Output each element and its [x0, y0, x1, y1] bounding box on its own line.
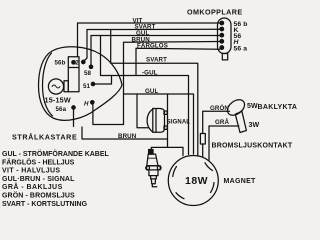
horn terminal top — [164, 111, 167, 114]
wire BRUN — [124, 42, 220, 125]
wire GRA — [209, 126, 239, 160]
node 51 — [91, 82, 94, 85]
bulb 15-15W — [48, 79, 63, 94]
svg-text:51: 51 — [83, 83, 91, 90]
spark plug hex — [147, 166, 161, 170]
spark plug insulator — [147, 154, 158, 166]
wire horn low — [137, 94, 148, 128]
svg-text:3W: 3W — [249, 122, 260, 129]
svg-text:GUL·BRUN - SIGNAL: GUL·BRUN - SIGNAL — [2, 176, 75, 183]
wire brun bottom — [82, 127, 168, 139]
wire GUL mid — [101, 36, 189, 155]
svg-text:56a: 56a — [56, 106, 67, 113]
pin K switch — [220, 27, 224, 31]
wire GUL — [91, 36, 220, 66]
spark plug body — [149, 170, 158, 176]
wire GUL low — [124, 94, 194, 154]
svg-text:FÄRGLÖS: FÄRGLÖS — [137, 43, 168, 50]
pin 56a switch — [220, 46, 224, 50]
pin H switch — [220, 40, 224, 44]
wire GRON — [203, 111, 230, 156]
magneto inner arcs — [173, 167, 177, 177]
svg-text:FÄRGLÖS - HELLJUS: FÄRGLÖS - HELLJUS — [2, 157, 75, 166]
svg-text:GRÖN: GRÖN — [210, 105, 229, 112]
horn terminal bottom — [164, 126, 167, 129]
svg-text:GRÖN - BROMSLJUS: GRÖN - BROMSLJUS — [2, 191, 75, 200]
switch tab — [222, 54, 227, 60]
headlight lens inner line — [43, 53, 53, 116]
node H — [91, 101, 94, 104]
wire SVART — [84, 29, 220, 61]
node 56b — [72, 61, 75, 64]
horn SIGNAL plate — [153, 109, 156, 133]
tail light neck — [236, 110, 242, 113]
svg-text:15-15W: 15-15W — [45, 96, 71, 105]
terminal box 2 — [68, 57, 79, 68]
wire horn feed — [167, 94, 169, 147]
headlight shell — [39, 47, 123, 121]
switch S1 body — [218, 18, 232, 54]
magneto G1 body — [168, 156, 218, 206]
spark plug electrode — [152, 184, 157, 187]
hook 51 — [93, 76, 112, 85]
svg-text:SVART: SVART — [146, 57, 167, 64]
node 56a — [72, 106, 75, 109]
wire H to U — [93, 103, 124, 125]
svg-text:OMKOPPLARE: OMKOPPLARE — [187, 8, 243, 17]
svg-text:GRÅ: GRÅ — [215, 119, 229, 126]
node 2 — [82, 60, 85, 63]
svg-text:GUL: GUL — [145, 88, 158, 95]
svg-text:H: H — [84, 101, 89, 108]
tail light body — [235, 111, 246, 132]
svg-text:2: 2 — [75, 60, 79, 67]
svg-text:5W: 5W — [247, 103, 258, 110]
svg-text:BAKLYKTA: BAKLYKTA — [258, 104, 298, 111]
svg-text:18W: 18W — [185, 175, 208, 187]
svg-text:BRUN: BRUN — [118, 133, 137, 140]
socket column — [68, 68, 79, 92]
brake switch BROMSLJUSKONTAKT — [200, 134, 205, 145]
svg-text:GRÅ - BAKLJUS: GRÅ - BAKLJUS — [2, 182, 63, 191]
wire VIT — [78, 23, 220, 57]
svg-text:STRÅLKASTARE: STRÅLKASTARE — [12, 133, 77, 142]
svg-text:GUL - STRÖMFÖRANDE KABEL: GUL - STRÖMFÖRANDE KABEL — [2, 149, 110, 158]
svg-text:MAGNET: MAGNET — [224, 178, 257, 185]
pin 56 switch — [220, 33, 224, 37]
svg-text:56b: 56b — [55, 59, 66, 66]
horn SIGNAL body — [153, 109, 165, 133]
tail light BAKLYKTA head — [224, 97, 247, 119]
wire spark plug — [151, 147, 183, 155]
spark plug cap — [149, 150, 153, 155]
wire SVART kill — [111, 30, 198, 156]
bulb socket rect — [64, 81, 68, 92]
pin 56b switch — [220, 21, 224, 25]
node 58 — [89, 65, 92, 68]
svg-text:SVART - KORTSLUTNING: SVART - KORTSLUTNING — [2, 201, 88, 208]
svg-text:SIGNAL: SIGNAL — [167, 120, 191, 126]
svg-text:56 a: 56 a — [234, 45, 248, 52]
svg-text:-GUL: -GUL — [142, 70, 158, 77]
wire FARGLOS — [136, 48, 220, 74]
wire 56a down — [73, 108, 75, 127]
svg-text:VIT - HALVLJUS: VIT - HALVLJUS — [2, 168, 60, 175]
horn SIGNAL bell — [147, 109, 153, 132]
svg-text:58: 58 — [84, 70, 92, 77]
svg-text:BROMSLJUSKONTAKT: BROMSLJUSKONTAKT — [212, 143, 293, 150]
